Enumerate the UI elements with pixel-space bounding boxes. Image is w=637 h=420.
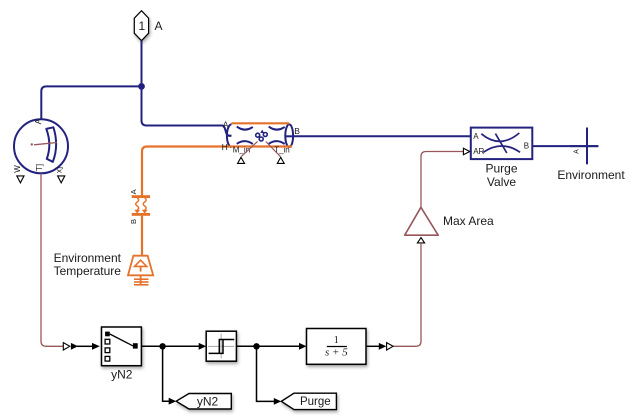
wire: port1 down to junction (141, 41, 143, 87)
wire: purge valve B to environment (532, 145, 598, 147)
wire: TF output arrow and converter (366, 345, 379, 347)
svg-text:Environment: Environment (557, 168, 625, 182)
thermal reference (ground) (134, 275, 149, 285)
svg-text:1: 1 (138, 19, 145, 33)
wire: junction left and down to sensor port A (41, 86, 141, 119)
multiport switch yN2 (102, 327, 142, 366)
svg-text:W: W (13, 165, 22, 173)
temperature source block (128, 256, 153, 276)
relay block (206, 331, 236, 361)
gain input arrow (hollow) (417, 238, 424, 243)
goto tag Purge (281, 393, 336, 409)
left end cap arc (227, 124, 232, 147)
port B tick through cap (285, 135, 293, 137)
goto tag yN2 (176, 394, 231, 410)
inner arc bottom-left (237, 141, 253, 144)
wire: junction down to goto yN2 (163, 346, 170, 401)
svg-text:Max Area: Max Area (443, 214, 494, 228)
svg-text:AR: AR (473, 147, 484, 156)
wire: TF output to gain input (physical signal, brown) (393, 243, 421, 346)
purge valve block (471, 128, 533, 160)
unconnected port triangle x (58, 176, 65, 183)
wire: thermal H line (orange) along bottom and to the left (142, 147, 292, 196)
converter triangle at sensor signal (hollow) (63, 343, 70, 350)
unconnected port triangle W (17, 176, 24, 183)
wire: unconnected M_in lead (241, 142, 257, 157)
constant volume chamber block (227, 123, 293, 147)
right end cap ellipse (285, 124, 293, 147)
svg-text:B: B (294, 126, 300, 136)
wire: junction down then right into chamber port A (142, 86, 232, 135)
unconnected port triangle T_in (277, 157, 284, 163)
inner arc top-right (269, 127, 285, 130)
inport 1 (hexagon) (134, 11, 148, 41)
svg-text:1: 1 (334, 335, 339, 346)
svg-text:B: B (524, 141, 529, 150)
unconnected port triangle M_in (238, 157, 245, 163)
environment (reservoir) symbol (570, 128, 598, 165)
wire: junction down to goto Purge (257, 346, 275, 401)
wire: relay output to transfer fcn (236, 345, 299, 347)
svg-text:M_in: M_in (233, 145, 250, 154)
needle (34, 143, 57, 145)
conductive heat transfer block (132, 195, 150, 216)
svg-text:A: A (223, 120, 229, 130)
svg-text:x]: x] (55, 167, 64, 173)
inner arc bottom-right (269, 141, 285, 144)
node: junction after switch (159, 343, 165, 349)
node: junction after relay (253, 343, 259, 349)
thermal jacket top line (orange) (232, 122, 290, 124)
port A tick (227, 135, 232, 137)
sensor block (thermodynamic properties sensor) (14, 119, 68, 173)
svg-text:A: A (129, 189, 138, 194)
svg-text:T]: T] (35, 164, 44, 171)
svg-text:Purge: Purge (485, 162, 517, 176)
wire: gain output up to valve AR (brown) (421, 152, 463, 208)
svg-text:A: A (473, 132, 479, 141)
gas molecules (260, 130, 264, 133)
svg-text:s + 5: s + 5 (325, 346, 348, 358)
svg-text:Temperature: Temperature (54, 264, 122, 278)
wire: chamber B to purge valve A (286, 135, 471, 137)
wire: converter to switch input (black signal) (71, 343, 78, 350)
wire: sensor T output down to converter (physical signal, brown) (41, 174, 63, 347)
svg-text:B: B (129, 219, 138, 224)
inner arc top-left (237, 127, 253, 130)
converter triangle at valve AR (463, 148, 469, 154)
svg-text:H: H (222, 142, 228, 152)
wire: conduction B down to temperature source (orange) (141, 216, 143, 256)
wire: unconnected T_in lead (266, 142, 281, 157)
svg-text:Purge: Purge (300, 396, 331, 408)
svg-text:yN2: yN2 (197, 395, 219, 409)
transfer fcn block 1/(s+5) (307, 329, 367, 365)
svg-text:A: A (33, 118, 43, 124)
svg-text:yN2: yN2 (111, 368, 133, 382)
svg-text:Valve: Valve (487, 175, 516, 189)
gauge arc band (46, 127, 56, 162)
node: junction on blue net (138, 83, 145, 90)
wire: switch output to relay (141, 345, 199, 347)
gain block Max Area (405, 207, 439, 235)
svg-text:A: A (574, 149, 581, 154)
svg-text:A: A (155, 19, 163, 33)
